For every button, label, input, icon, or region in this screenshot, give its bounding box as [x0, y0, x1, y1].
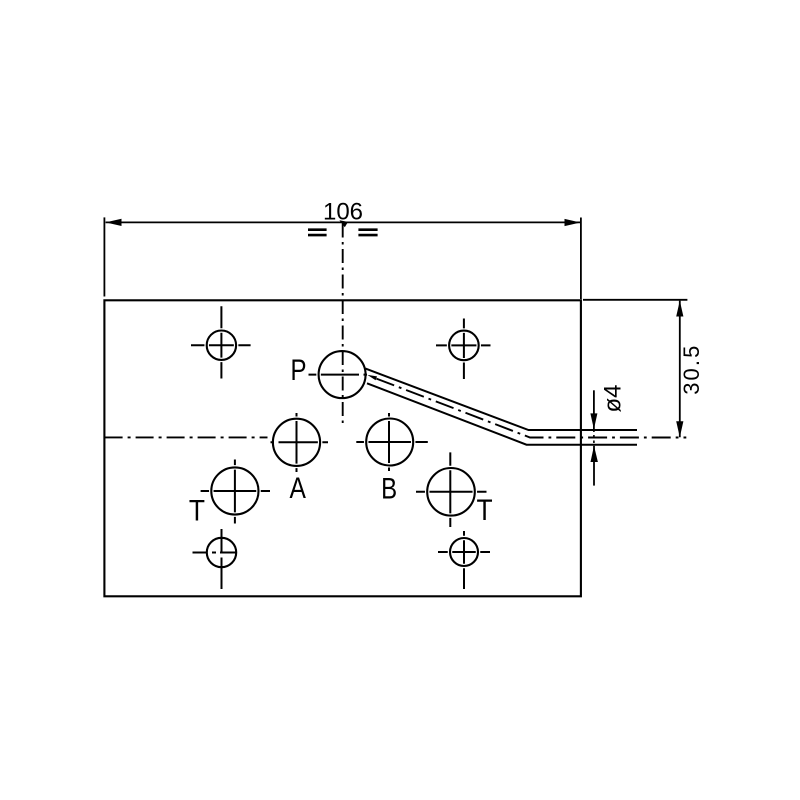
gauge slot upper edge	[366, 369, 638, 430]
dimension ø4: dimension line lower segment	[593, 446, 595, 486]
dimension 106: extension line left	[103, 217, 105, 296]
dimension ø4: dotted segment across slot	[593, 430, 595, 446]
mounting hole bottom-left	[193, 529, 237, 589]
dimension 30.5: dimension line	[679, 301, 681, 438]
horizontal centerline (gauge-port drill axis, left segment)	[105, 436, 268, 438]
label T right	[476, 493, 492, 527]
svg-text:B: B	[381, 471, 397, 505]
svg-text:T: T	[476, 493, 492, 527]
svg-text:T: T	[189, 493, 205, 527]
symmetry mark left (=)	[308, 230, 327, 235]
port A hole	[271, 413, 329, 472]
port T hole left	[201, 460, 270, 524]
dimension 106: extension line right	[580, 218, 582, 300]
plate outline (subplate front view)	[104, 300, 581, 596]
label B	[381, 471, 397, 505]
dimension 106: left arrowhead	[106, 219, 122, 226]
symmetry mark right (=)	[358, 230, 377, 235]
dimension ø4: value text (rotated)	[599, 384, 626, 412]
svg-text:ø4: ø4	[599, 384, 626, 412]
mounting hole bottom-right	[438, 531, 490, 589]
mounting hole top-right	[436, 319, 491, 380]
dimension 106: value text	[323, 199, 363, 226]
dimension 106: centerline reference arrowhead	[339, 220, 348, 227]
gauge slot lower edge	[367, 383, 637, 444]
dimension 30.5: extension line (top, from plate corner)	[583, 299, 687, 301]
mounting hole top-left	[191, 306, 251, 378]
dimension ø4: dimension line upper segment	[593, 390, 595, 429]
dimension 106: right arrowhead	[565, 219, 581, 226]
label P	[290, 352, 306, 386]
svg-text:30.5: 30.5	[679, 344, 704, 395]
dimension 106: dimension line	[106, 221, 581, 223]
dimension ø4: upper arrowhead (pointing down)	[590, 413, 597, 429]
label A	[289, 470, 306, 504]
port T hole right	[416, 452, 487, 527]
svg-text:P: P	[290, 352, 306, 386]
gauge passage centerline (slanted + horizontal, with start arrow)	[367, 375, 686, 438]
label T left	[189, 493, 205, 527]
port P hole	[309, 351, 368, 398]
dimension ø4: lower arrowhead (pointing up)	[591, 446, 598, 462]
svg-text:106: 106	[323, 199, 363, 226]
vertical centerline (plate symmetry axis)	[342, 224, 344, 425]
dimension 30.5: top arrowhead	[676, 301, 683, 317]
svg-text:A: A	[289, 470, 306, 504]
dimension 30.5: bottom arrowhead	[676, 421, 683, 437]
port B hole	[356, 413, 428, 471]
dimension 30.5: value text (rotated)	[679, 344, 704, 395]
